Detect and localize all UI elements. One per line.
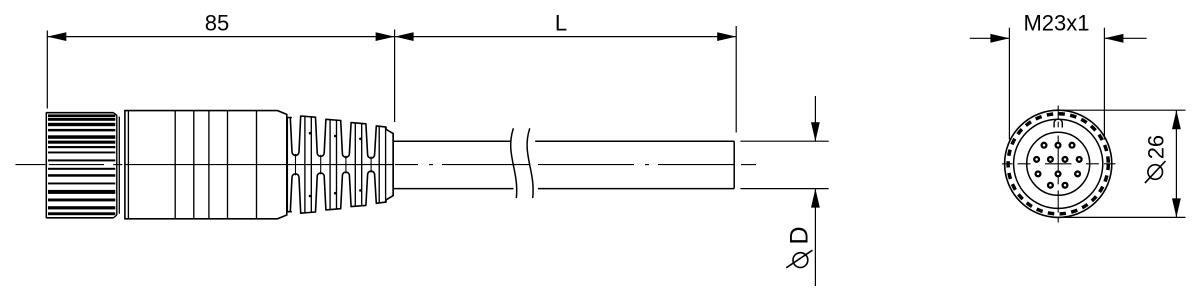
svg-text:L: L [555, 10, 567, 35]
svg-text:26: 26 [1144, 135, 1169, 159]
svg-text:85: 85 [205, 10, 229, 35]
svg-text:M23x1: M23x1 [1023, 10, 1089, 35]
svg-text:D: D [785, 226, 813, 244]
